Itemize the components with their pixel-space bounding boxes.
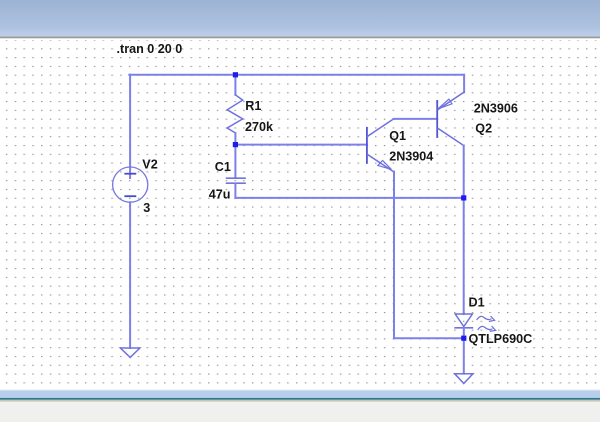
voltage source V2 bbox=[113, 167, 148, 202]
wire V2 top lead bbox=[129, 75, 131, 178]
junction node R1/C1/base bbox=[233, 142, 238, 147]
svg-text:270k: 270k bbox=[245, 120, 274, 134]
wire V2 bottom lead bbox=[129, 202, 131, 348]
capacitor C1 bbox=[227, 145, 245, 198]
svg-text:2N3904: 2N3904 bbox=[389, 150, 433, 164]
resistor R1 bbox=[227, 75, 243, 145]
ground under V2 bbox=[120, 348, 139, 357]
svg-text:2N3906: 2N3906 bbox=[474, 102, 518, 116]
wire Q2 collector down bbox=[463, 146, 465, 198]
junction node top of R1 bbox=[233, 72, 238, 77]
svg-text:R1: R1 bbox=[245, 99, 261, 113]
wire C1 bottom to Q2 collector node bbox=[235, 197, 463, 199]
svg-text:QTLP690C: QTLP690C bbox=[469, 332, 533, 346]
wire D1 to ground bbox=[463, 338, 465, 373]
wire down to D1 bbox=[463, 198, 465, 314]
wire Q1 collector to Q2 base bbox=[393, 118, 437, 120]
junction node LED cathode bbox=[461, 336, 466, 341]
svg-text:C1: C1 bbox=[215, 160, 231, 174]
svg-text:V2: V2 bbox=[142, 157, 157, 171]
transistor Q1 bbox=[367, 119, 394, 172]
wire base of Q1 bbox=[235, 144, 367, 146]
LED D1 bbox=[455, 314, 495, 338]
wire top rail bbox=[129, 74, 464, 76]
svg-text:Q2: Q2 bbox=[475, 122, 492, 136]
svg-text:47u: 47u bbox=[209, 188, 231, 202]
wire Q2 emitter stub bbox=[463, 75, 465, 92]
svg-text:.tran 0 20 0: .tran 0 20 0 bbox=[117, 42, 183, 56]
svg-text:Q1: Q1 bbox=[389, 129, 406, 143]
svg-text:3: 3 bbox=[143, 201, 150, 215]
ground under D1 bbox=[455, 374, 473, 384]
wire Q1 emitter down bbox=[393, 172, 395, 339]
transistor Q2 bbox=[437, 92, 464, 145]
wire emitter run to LED node bbox=[394, 337, 464, 339]
junction node Q2 collector / C1 bbox=[461, 195, 466, 200]
svg-text:D1: D1 bbox=[469, 296, 485, 310]
